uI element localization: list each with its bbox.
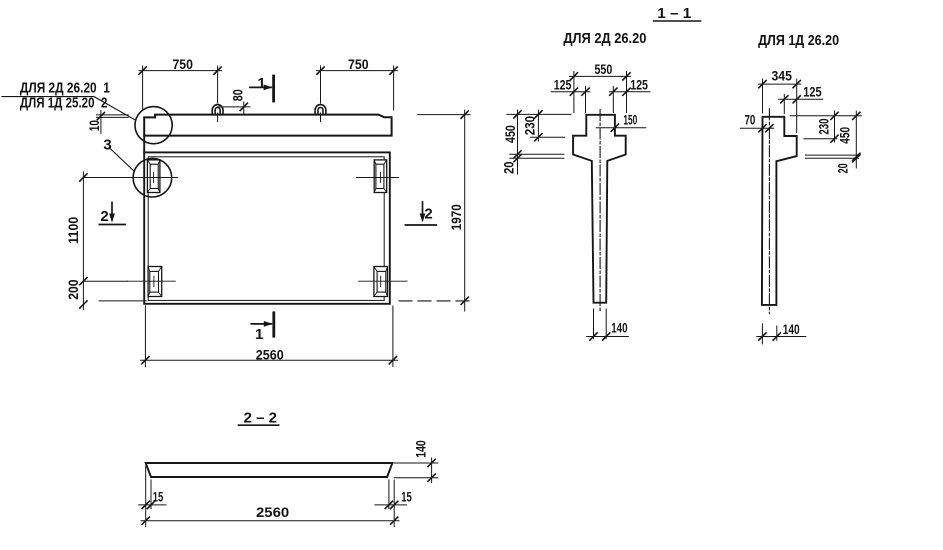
svg-text:1 – 1: 1 – 1 (657, 5, 691, 22)
title 2-2 underline (239, 424, 279, 426)
socket bottom-right centerline (359, 276, 407, 286)
detail circle corner (135, 107, 172, 144)
dimension 1970: line and ticks (464, 110, 466, 311)
section A dimension 450 (517, 110, 519, 174)
lifting loop right (315, 105, 326, 115)
section mark 2 right (422, 202, 424, 220)
section B dimension 140 bottom (762, 324, 776, 344)
socket top-right centerline (357, 173, 399, 183)
dimension 10 (notch) extension lines (96, 115, 128, 118)
svg-text:230: 230 (816, 118, 832, 134)
leader line for labels 1 and 2 (2, 97, 135, 120)
svg-text:750: 750 (348, 56, 369, 72)
section A outline (for 2D 26.20) (573, 115, 626, 303)
dimension 80: line and extension (218, 102, 250, 114)
svg-text:15: 15 (401, 488, 412, 504)
svg-text:450: 450 (502, 125, 518, 143)
dimension 750 left: line (139, 70, 222, 72)
svg-text:ДЛЯ 2Д 26.20: ДЛЯ 2Д 26.20 (563, 30, 646, 47)
section B dimension 70 (741, 127, 774, 129)
panel cap (top band) outline with corner notch (144, 115, 391, 136)
section A notch line and 150 dim (596, 127, 646, 129)
dimension 1970: extension lines (418, 114, 470, 116)
svg-text:1100: 1100 (65, 217, 81, 244)
svg-text:1: 1 (255, 326, 263, 343)
section mark 1 bottom (272, 313, 275, 336)
section 2-2 slab outline (146, 463, 393, 477)
panel wall outer rectangle (144, 152, 390, 303)
section 2-2 dimension 140 (431, 458, 433, 483)
dimensions 1100/200: extension lines (83, 178, 146, 301)
dimension 750 right: extension lines (321, 66, 394, 110)
section 2-2 dimension 15 right (375, 504, 407, 506)
svg-text:345: 345 (772, 67, 793, 83)
lifting loop right centerline dash (320, 113, 322, 122)
section mark 1 top (272, 76, 275, 101)
svg-text:20: 20 (501, 161, 517, 174)
svg-text:750: 750 (172, 56, 193, 72)
svg-text:150: 150 (623, 111, 637, 127)
svg-text:2560: 2560 (256, 346, 284, 362)
section 2-2 dimension 2560 (141, 520, 399, 522)
section mark 2 left (111, 203, 113, 220)
section 2-2 dimension 15 left (139, 504, 166, 506)
socket top-left centerline (136, 173, 178, 183)
section B outline (for 1D 26.20) (762, 117, 797, 305)
svg-text:140: 140 (783, 321, 800, 337)
svg-text:140: 140 (413, 440, 429, 458)
section A dimension 550 (570, 75, 631, 77)
svg-text:200: 200 (65, 279, 81, 300)
title 1-1 underline (654, 20, 701, 22)
svg-text:1970: 1970 (448, 204, 464, 230)
dimension 750 right: line (317, 70, 398, 72)
svg-text:2560: 2560 (256, 504, 289, 520)
svg-text:125: 125 (803, 84, 821, 100)
wall left edge connector (143, 136, 145, 153)
dimension 10 line (100, 110, 102, 133)
panel wall inner contour (148, 157, 384, 301)
socket bottom-left (148, 267, 162, 297)
section B dimension 125 (779, 98, 823, 100)
section A dimension 20 extension lines (510, 154, 564, 158)
svg-text:2 – 2: 2 – 2 (244, 409, 277, 426)
svg-text:450: 450 (837, 127, 853, 144)
dimension 2560 main: line and ticks (141, 359, 398, 361)
svg-text:20: 20 (835, 163, 851, 173)
section B dimension 20 extension lines (805, 155, 858, 158)
dimension 2560 main: extension lines (145, 306, 393, 367)
svg-text:550: 550 (595, 61, 613, 77)
detail circle socket (133, 158, 172, 197)
section B dimension 230 (834, 111, 836, 142)
dimension 750 left: extension lines (143, 66, 218, 111)
svg-text:80: 80 (230, 89, 246, 101)
lifting loop left (212, 105, 223, 115)
svg-text:2: 2 (100, 208, 108, 225)
svg-text:ДЛЯ 1Д 26.20: ДЛЯ 1Д 26.20 (758, 32, 839, 49)
svg-text:3: 3 (103, 137, 111, 154)
svg-text:125: 125 (630, 76, 648, 92)
svg-text:1: 1 (257, 75, 265, 92)
socket bottom-left centerline (127, 276, 175, 286)
lifting loop left centerline dash (217, 113, 219, 122)
section B dimension 345 (759, 83, 801, 85)
svg-text:ДЛЯ 1Д 25.20 2: ДЛЯ 1Д 25.20 2 (20, 95, 108, 112)
leader line for label 3 (111, 149, 134, 171)
svg-text:2: 2 (424, 205, 432, 222)
socket top-right (374, 160, 387, 193)
socket bottom-right (374, 267, 388, 297)
section A dimension 125 left (551, 91, 590, 93)
section A dimension 125 right (610, 91, 651, 93)
dimensions 1100/200: line and ticks (82, 172, 84, 310)
svg-text:10: 10 (86, 120, 102, 131)
svg-text:230: 230 (521, 116, 537, 135)
svg-text:70: 70 (744, 112, 755, 128)
section B centerline (768, 109, 770, 314)
svg-text:15: 15 (153, 488, 164, 504)
svg-text:140: 140 (611, 320, 627, 336)
svg-text:125: 125 (554, 76, 572, 92)
section B dimension 450 (855, 111, 857, 168)
section A centerline (599, 110, 601, 312)
section A dimension 140 bottom (594, 309, 607, 339)
section A dimension 230 (537, 110, 539, 141)
socket top-left (147, 160, 160, 193)
